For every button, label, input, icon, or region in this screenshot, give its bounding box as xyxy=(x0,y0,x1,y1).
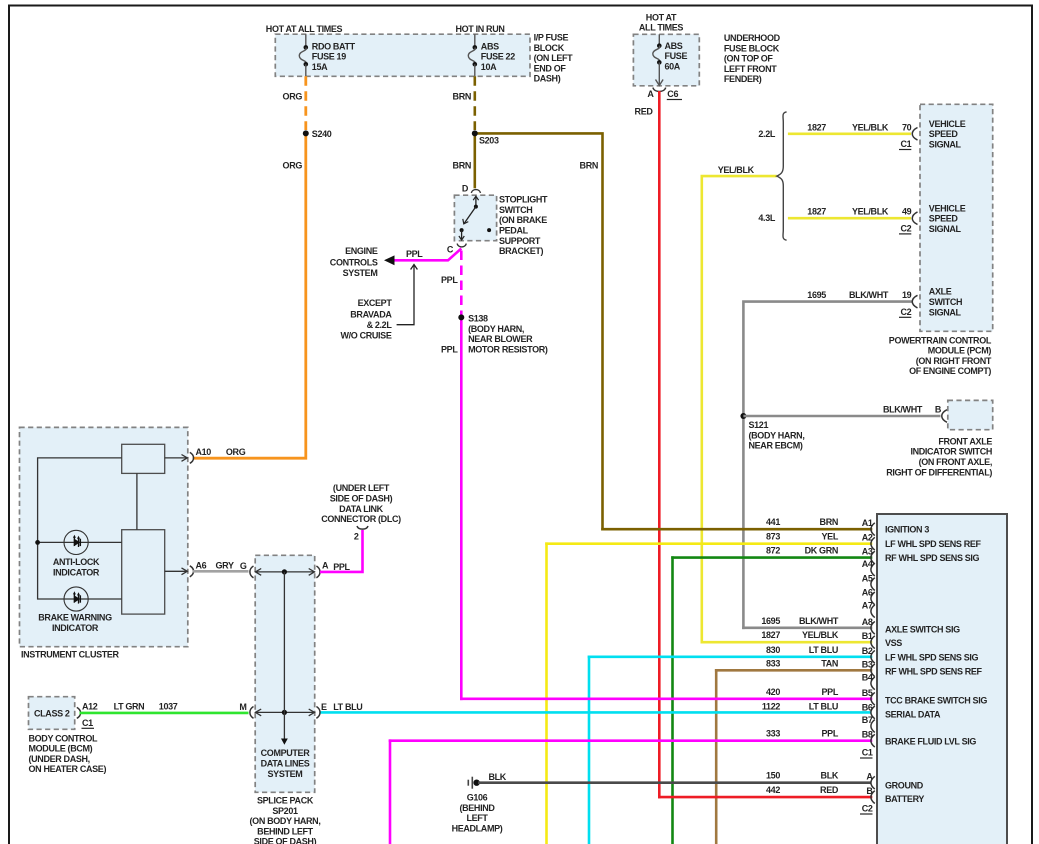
EBCM wire number labels xyxy=(761,517,780,795)
wire LT BLU horizontal to EBCM B2 xyxy=(589,655,871,658)
svg-text:MODULE (PCM): MODULE (PCM) xyxy=(928,346,992,356)
label POWERTRAIN CONTROL MODULE (PCM) (ON RIGHT FRONT OF ENGINE COMPT) xyxy=(889,335,992,376)
svg-text:CLASS 2: CLASS 2 xyxy=(34,708,70,718)
svg-text:VEHICLE: VEHICLE xyxy=(929,203,966,213)
svg-text:HOT AT: HOT AT xyxy=(646,12,677,22)
svg-text:70: 70 xyxy=(902,122,912,132)
wire BLK/WHT 1695 to PCM pin 19 and down to S121 / EBCM A8 xyxy=(743,302,911,628)
wire PPL horizontal to EBCM B5 xyxy=(461,697,871,700)
label VEHICLE SPEED SIGNAL (pin 49) xyxy=(929,203,966,234)
svg-text:PPL: PPL xyxy=(441,345,458,355)
svg-text:BLK: BLK xyxy=(821,771,839,781)
svg-text:I/P FUSE: I/P FUSE xyxy=(534,33,569,43)
svg-text:SIGNAL: SIGNAL xyxy=(929,224,962,234)
wire YEL/BLK horizontal to EBCM B1 xyxy=(702,641,871,644)
svg-text:YEL/BLK: YEL/BLK xyxy=(718,165,755,175)
svg-text:YEL/BLK: YEL/BLK xyxy=(852,207,889,217)
svg-text:BLK/WHT: BLK/WHT xyxy=(849,290,889,300)
label S138 (BODY HARN, NEAR BLOWER MOTOR RESISTOR) xyxy=(468,313,548,354)
svg-text:ANTI-LOCK: ANTI-LOCK xyxy=(53,557,100,567)
svg-text:SPEED: SPEED xyxy=(929,129,959,139)
splice connector arc G xyxy=(250,566,254,578)
svg-text:ORG: ORG xyxy=(226,447,246,457)
label EXCEPT BRAVADA & 2.2L W/O CRUISE xyxy=(340,298,392,341)
wire RED horizontal to EBCM B xyxy=(659,796,871,799)
svg-text:MOTOR RESISTOR): MOTOR RESISTOR) xyxy=(468,345,548,355)
svg-text:RED: RED xyxy=(635,107,654,117)
splice connector arc M xyxy=(250,707,254,719)
DLC connector 2 (cup) xyxy=(357,526,368,529)
label ENGINE CONTROLS SYSTEM xyxy=(330,246,378,278)
connector D (frown arc) xyxy=(471,190,480,193)
junction dot (cluster) xyxy=(35,540,40,545)
svg-text:M: M xyxy=(239,702,246,712)
svg-text:EXCEPT: EXCEPT xyxy=(358,298,393,308)
svg-text:441: 441 xyxy=(766,517,780,527)
svg-text:G106: G106 xyxy=(467,793,488,803)
splice connector arc A xyxy=(316,566,320,578)
connector arc front axle B xyxy=(942,410,947,423)
svg-text:442: 442 xyxy=(766,785,780,795)
svg-text:SIGNAL: SIGNAL xyxy=(929,307,962,317)
svg-text:RF WHL SPD SENS REF: RF WHL SPD SENS REF xyxy=(885,666,983,676)
wire BRN from S203 down to stoplight switch D xyxy=(473,133,476,188)
svg-text:LF WHL SPD SENS REF: LF WHL SPD SENS REF xyxy=(885,539,982,549)
splice pack inner G-A row xyxy=(255,569,315,576)
svg-text:B4: B4 xyxy=(862,672,873,682)
svg-text:SWITCH: SWITCH xyxy=(499,205,532,215)
wire LT BLU from bottom edge to EBCM B2 xyxy=(588,657,591,844)
svg-text:RDO BATT: RDO BATT xyxy=(312,41,356,51)
svg-text:FUSE BLOCK: FUSE BLOCK xyxy=(724,43,780,53)
svg-text:PPL: PPL xyxy=(822,687,839,697)
LED anti-lock indicator xyxy=(64,530,88,554)
svg-text:SYSTEM: SYSTEM xyxy=(268,769,303,779)
svg-text:(ON TOP OF: (ON TOP OF xyxy=(724,54,774,64)
EBCM pin arcs A1-A8 B1-B8 A B xyxy=(871,523,875,804)
svg-text:(ON BRAKE: (ON BRAKE xyxy=(499,215,547,225)
EBCM pin labels xyxy=(862,518,874,796)
BCM box xyxy=(29,697,75,730)
instrument cluster box xyxy=(20,427,188,646)
svg-text:SIDE OF DASH): SIDE OF DASH) xyxy=(254,837,317,844)
svg-text:1037: 1037 xyxy=(159,701,178,711)
svg-text:A: A xyxy=(322,560,329,570)
label G106 (BEHIND LEFT HEADLAMP) xyxy=(452,793,503,834)
label HOT AT ALL TIMES (underhood) xyxy=(639,12,684,32)
svg-text:C6: C6 xyxy=(667,89,678,99)
svg-text:A3: A3 xyxy=(862,547,873,557)
svg-text:HEADLAMP): HEADLAMP) xyxy=(452,823,503,833)
svg-text:RED: RED xyxy=(820,785,839,795)
svg-text:B: B xyxy=(935,405,942,415)
cluster A6 connector (arrow + arc) xyxy=(165,566,194,577)
svg-text:1827: 1827 xyxy=(807,207,826,217)
svg-text:RF WHL SPD SENS SIG: RF WHL SPD SENS SIG xyxy=(885,553,980,563)
wire PPL from C to engine controls (diagonal + horizontal) xyxy=(393,249,461,261)
svg-text:ORG: ORG xyxy=(283,161,303,171)
wire YEL/BLK vertical to EBCM B1 xyxy=(702,176,776,642)
svg-text:C2: C2 xyxy=(900,307,911,317)
PCM box xyxy=(920,104,993,331)
svg-text:UNDERHOOD: UNDERHOOD xyxy=(724,33,781,43)
svg-text:(ON RIGHT FRONT: (ON RIGHT FRONT xyxy=(916,356,992,366)
svg-text:BRN: BRN xyxy=(820,517,838,527)
svg-text:BRAKE WARNING: BRAKE WARNING xyxy=(38,613,112,623)
svg-text:A12: A12 xyxy=(82,701,98,711)
wire PPL from S138 down to EBCM B5 xyxy=(460,317,463,698)
svg-text:SIGNAL: SIGNAL xyxy=(929,140,962,150)
svg-text:BRAVADA: BRAVADA xyxy=(350,310,392,320)
svg-text:OF ENGINE COMPT): OF ENGINE COMPT) xyxy=(909,366,991,376)
splice connector arc E xyxy=(316,707,320,719)
svg-text:A6: A6 xyxy=(196,560,207,570)
svg-text:2: 2 xyxy=(354,532,359,542)
svg-text:150: 150 xyxy=(766,771,780,781)
svg-text:LEFT: LEFT xyxy=(466,813,488,823)
svg-text:CONTROLS: CONTROLS xyxy=(330,258,378,268)
wire RED vertical from C6 to EBCM B row xyxy=(658,92,661,797)
wire BRN branch S203 to EBCM A1 xyxy=(475,133,603,529)
svg-text:MODULE (BCM): MODULE (BCM) xyxy=(29,744,93,754)
junction S138 xyxy=(458,314,464,320)
svg-text:60A: 60A xyxy=(665,61,681,71)
label I/P FUSE BLOCK (ON LEFT END OF DASH) xyxy=(534,33,574,84)
svg-text:B2: B2 xyxy=(862,646,873,656)
label STOPLIGHT SWITCH (ON BRAKE PEDAL SUPPORT BRACKET) xyxy=(499,195,548,257)
svg-text:A10: A10 xyxy=(196,447,212,457)
wire TAN from bottom edge to EBCM B3 xyxy=(715,670,718,844)
svg-text:C2: C2 xyxy=(900,223,911,233)
svg-text:15A: 15A xyxy=(312,62,328,72)
svg-text:BLK/WHT: BLK/WHT xyxy=(799,616,839,626)
svg-text:INDICATOR: INDICATOR xyxy=(52,623,99,633)
connector arc PCM 49 xyxy=(912,212,917,225)
svg-text:PPL: PPL xyxy=(406,249,423,259)
svg-text:833: 833 xyxy=(766,658,780,668)
svg-text:1695: 1695 xyxy=(761,616,780,626)
svg-text:LEFT FRONT: LEFT FRONT xyxy=(724,64,777,74)
svg-text:HOT AT ALL TIMES: HOT AT ALL TIMES xyxy=(266,24,343,34)
svg-text:830: 830 xyxy=(766,645,780,655)
wire DK GRN horizontal to EBCM A3 xyxy=(673,556,872,559)
svg-text:B: B xyxy=(866,786,873,796)
pointer line except-bravada to PPL wire xyxy=(397,265,418,325)
svg-text:A2: A2 xyxy=(862,533,873,543)
wire PPL horizontal to EBCM B8 xyxy=(390,739,871,742)
BCM connector arc A12 xyxy=(77,707,81,718)
svg-text:FENDER): FENDER) xyxy=(724,74,762,84)
svg-text:B8: B8 xyxy=(862,730,873,740)
wire BLK/WHT S121 to front axle indicator switch xyxy=(743,415,940,418)
svg-text:SWITCH: SWITCH xyxy=(929,297,962,307)
svg-text:SP201: SP201 xyxy=(272,806,298,816)
svg-text:LT BLU: LT BLU xyxy=(809,645,838,655)
svg-text:VSS: VSS xyxy=(885,638,902,648)
svg-text:HOT IN RUN: HOT IN RUN xyxy=(456,24,505,34)
svg-text:PPL: PPL xyxy=(441,275,458,285)
svg-text:SERIAL DATA: SERIAL DATA xyxy=(885,709,941,719)
svg-text:PPL: PPL xyxy=(822,729,839,739)
svg-text:(ON FRONT AXLE,: (ON FRONT AXLE, xyxy=(919,457,992,467)
svg-text:YEL/BLK: YEL/BLK xyxy=(802,630,839,640)
wire YEL from bottom edge to EBCM A2 xyxy=(545,544,548,844)
svg-text:(UNDER LEFT: (UNDER LEFT xyxy=(333,483,390,493)
svg-text:STOPLIGHT: STOPLIGHT xyxy=(499,195,548,205)
junction S121 xyxy=(740,413,746,419)
svg-text:DK GRN: DK GRN xyxy=(805,546,838,556)
ground G106 xyxy=(468,777,480,789)
svg-text:(ON LEFT: (ON LEFT xyxy=(534,53,574,63)
svg-text:333: 333 xyxy=(766,729,780,739)
svg-text:PPL: PPL xyxy=(333,562,350,572)
svg-text:10A: 10A xyxy=(481,62,497,72)
cluster A10 connector (arrow + arc) xyxy=(165,452,194,463)
svg-text:END OF: END OF xyxy=(534,63,567,73)
svg-text:FUSE 19: FUSE 19 xyxy=(312,52,346,62)
splice pack inner M-E row xyxy=(255,709,315,716)
svg-text:1827: 1827 xyxy=(761,630,780,640)
svg-text:C2: C2 xyxy=(862,804,873,814)
svg-text:YEL: YEL xyxy=(822,532,839,542)
svg-text:(ON BODY HARN,: (ON BODY HARN, xyxy=(250,816,321,826)
svg-text:BODY CONTROL: BODY CONTROL xyxy=(29,733,98,743)
svg-text:1122: 1122 xyxy=(762,701,780,711)
connector C (cup arc) xyxy=(457,244,466,247)
svg-text:LT BLU: LT BLU xyxy=(809,701,838,711)
splice S203 xyxy=(472,130,478,136)
svg-text:BRAKE FLUID LVL SIG: BRAKE FLUID LVL SIG xyxy=(885,737,976,747)
svg-text:4.3L: 4.3L xyxy=(758,213,775,223)
cluster inner module large rect xyxy=(122,530,165,614)
svg-text:AXLE: AXLE xyxy=(929,287,952,297)
svg-text:COMPUTER: COMPUTER xyxy=(261,748,311,758)
svg-text:C1: C1 xyxy=(82,718,93,728)
svg-text:S121: S121 xyxy=(749,420,769,430)
wire ORG solid from S240 to instrument cluster A10 xyxy=(193,133,306,458)
svg-text:BRN: BRN xyxy=(453,91,471,101)
svg-text:C1: C1 xyxy=(900,139,911,149)
svg-text:DATA LINES: DATA LINES xyxy=(261,759,310,769)
svg-text:SPLICE PACK: SPLICE PACK xyxy=(257,796,314,806)
arrowhead engine controls xyxy=(384,255,395,265)
svg-text:BEHIND LEFT: BEHIND LEFT xyxy=(257,826,314,836)
svg-text:FUSE: FUSE xyxy=(665,51,688,61)
fuse F19 RDO BATT FUSE 19 15A xyxy=(299,34,355,76)
svg-text:B3: B3 xyxy=(862,659,873,669)
connector C6 (cup) xyxy=(653,88,666,92)
svg-text:A1: A1 xyxy=(862,518,873,528)
svg-text:LT GRN: LT GRN xyxy=(114,701,145,711)
svg-text:CONNECTOR (DLC): CONNECTOR (DLC) xyxy=(321,514,401,524)
label (UNDER LEFT SIDE OF DASH) DATA LINK CONNECTOR (DLC) xyxy=(321,483,401,524)
wire YEL horizontal to EBCM A2 xyxy=(547,542,872,545)
label UNDERHOOD FUSE BLOCK (ON TOP OF LEFT FRONT FENDER) xyxy=(724,33,781,84)
svg-text:S240: S240 xyxy=(312,129,332,139)
pin C2 label underlined xyxy=(899,223,912,234)
I/P fuse block (box) xyxy=(275,34,530,76)
stoplight switch internals xyxy=(459,196,491,240)
label FRONT AXLE INDICATOR SWITCH (ON FRONT AXLE, RIGHT OF DIFFERENTIAL) xyxy=(886,436,992,477)
wire LT GRN BCM to splice pack M xyxy=(80,712,249,715)
wire PPL dashed from C down to S138 xyxy=(460,251,463,318)
svg-text:(BODY HARN,: (BODY HARN, xyxy=(468,324,524,334)
svg-text:INDICATOR SWITCH: INDICATOR SWITCH xyxy=(910,447,992,457)
svg-text:S203: S203 xyxy=(479,135,499,145)
svg-text:B5: B5 xyxy=(862,688,873,698)
svg-text:19: 19 xyxy=(902,290,912,300)
svg-text:POWERTRAIN CONTROL: POWERTRAIN CONTROL xyxy=(889,335,992,345)
svg-text:GROUND: GROUND xyxy=(885,780,924,790)
front axle indicator switch box xyxy=(948,400,993,429)
brace 2.2L/4.3L split xyxy=(777,112,787,240)
fuse F22 ABS FUSE 22 10A xyxy=(468,34,515,76)
svg-text:1827: 1827 xyxy=(807,122,826,132)
svg-text:SIDE OF DASH): SIDE OF DASH) xyxy=(330,494,393,504)
svg-text:DATA LINK: DATA LINK xyxy=(339,504,384,514)
svg-text:IGNITION 3: IGNITION 3 xyxy=(885,525,929,535)
cluster inner wires xyxy=(38,458,137,599)
wire BRN horizontal to EBCM A1 xyxy=(603,528,872,531)
svg-text:PEDAL: PEDAL xyxy=(499,226,529,236)
svg-text:BATTERY: BATTERY xyxy=(885,794,924,804)
wire BLK G106 to EBCM A xyxy=(478,781,871,784)
pin C1 label underlined xyxy=(899,139,912,150)
wire ORG dashed from fuse 19 to S240 xyxy=(304,76,307,130)
svg-text:(UNDER DASH,: (UNDER DASH, xyxy=(29,754,90,764)
svg-text:BLOCK: BLOCK xyxy=(534,43,565,53)
svg-text:A6: A6 xyxy=(862,588,873,598)
wire LT BLU serial data from splice pack E to EBCM B6 xyxy=(320,711,871,714)
svg-text:TCC BRAKE SWITCH SIG: TCC BRAKE SWITCH SIG xyxy=(885,696,987,706)
svg-text:873: 873 xyxy=(766,532,780,542)
wire BLK/WHT horizontal to EBCM A8 xyxy=(743,626,871,629)
svg-text:GRY: GRY xyxy=(216,560,234,570)
wire GRY cluster A6 to splice pack G xyxy=(193,570,249,573)
svg-text:LF WHL SPD SENS SIG: LF WHL SPD SENS SIG xyxy=(885,652,979,662)
svg-text:ALL TIMES: ALL TIMES xyxy=(639,23,684,33)
svg-text:1695: 1695 xyxy=(807,290,826,300)
svg-text:TAN: TAN xyxy=(821,658,838,668)
splice S240 xyxy=(303,130,309,136)
EBCM signal name labels xyxy=(885,525,987,804)
svg-text:SPEED: SPEED xyxy=(929,214,959,224)
label SPLICE PACK SP201 (ON BODY HARN, BEHIND LEFT SIDE OF DASH) xyxy=(250,796,321,844)
label COMPUTER DATA LINES SYSTEM xyxy=(261,748,311,779)
svg-text:A5: A5 xyxy=(862,573,873,583)
stoplight switch box xyxy=(454,195,496,241)
svg-text:BRN: BRN xyxy=(453,161,471,171)
wire YEL/BLK 1827 to PCM pin 49 xyxy=(788,217,911,220)
svg-text:49: 49 xyxy=(902,207,912,217)
svg-text:INSTRUMENT CLUSTER: INSTRUMENT CLUSTER xyxy=(21,650,120,660)
svg-text:C: C xyxy=(447,245,454,255)
svg-text:2.2L: 2.2L xyxy=(758,129,775,139)
svg-text:A4: A4 xyxy=(862,559,873,569)
svg-text:BLK/WHT: BLK/WHT xyxy=(883,405,923,415)
svg-text:(BODY HARN,: (BODY HARN, xyxy=(749,430,805,440)
wire TAN horizontal to EBCM B3 xyxy=(716,669,871,672)
svg-text:ABS: ABS xyxy=(481,41,499,51)
svg-text:SYSTEM: SYSTEM xyxy=(343,268,378,278)
underhood fuse block (box) xyxy=(633,34,699,86)
EBCM wire color labels xyxy=(799,517,839,795)
label S121 (BODY HARN, NEAR EBCM) xyxy=(749,420,805,451)
svg-text:A: A xyxy=(647,89,654,99)
label ANTI-LOCK INDICATOR xyxy=(53,557,100,577)
wire YEL/BLK 1827 to PCM pin 70 xyxy=(788,133,911,136)
svg-text:RIGHT OF DIFFERENTIAL): RIGHT OF DIFFERENTIAL) xyxy=(886,467,992,477)
svg-text:C1: C1 xyxy=(862,748,873,758)
svg-text:872: 872 xyxy=(766,546,780,556)
svg-text:BRN: BRN xyxy=(580,161,598,171)
svg-text:W/O CRUISE: W/O CRUISE xyxy=(340,331,391,341)
svg-text:(BEHIND: (BEHIND xyxy=(459,803,495,813)
svg-text:ABS: ABS xyxy=(665,41,683,51)
svg-text:ON HEATER CASE): ON HEATER CASE) xyxy=(29,764,107,774)
label C1 underlined (bcm) xyxy=(82,718,95,729)
label C1 underlined (EBCM) xyxy=(860,748,873,759)
svg-text:ENGINE: ENGINE xyxy=(345,246,378,256)
label BRAKE WARNING INDICATOR xyxy=(38,613,112,633)
label BODY CONTROL MODULE (BCM) (UNDER DASH, ON HEATER CASE) xyxy=(29,733,107,774)
label C6 underlined xyxy=(667,89,682,100)
svg-text:E: E xyxy=(321,702,327,712)
label VEHICLE SPEED SIGNAL (pin 70) xyxy=(929,119,966,150)
svg-text:VEHICLE: VEHICLE xyxy=(929,119,966,129)
svg-text:B1: B1 xyxy=(862,631,873,641)
connector arc PCM 70 xyxy=(912,128,917,141)
svg-text:A8: A8 xyxy=(862,617,873,627)
svg-text:A7: A7 xyxy=(862,601,873,611)
svg-text:LT BLU: LT BLU xyxy=(333,702,362,712)
svg-text:D: D xyxy=(462,184,469,194)
svg-text:SUPPORT: SUPPORT xyxy=(499,236,541,246)
svg-text:NEAR BLOWER: NEAR BLOWER xyxy=(468,334,533,344)
svg-text:B6: B6 xyxy=(862,702,873,712)
svg-text:G: G xyxy=(240,561,247,571)
svg-text:S138: S138 xyxy=(468,313,488,323)
svg-text:BLK: BLK xyxy=(489,772,507,782)
label AXLE SWITCH SIGNAL (pin 19) xyxy=(929,287,962,318)
splice pack vertical bus with arrow xyxy=(281,572,288,745)
svg-text:420: 420 xyxy=(766,687,780,697)
EBCM module box xyxy=(877,514,1007,844)
svg-text:YEL/BLK: YEL/BLK xyxy=(852,122,889,132)
svg-text:AXLE SWITCH SIG: AXLE SWITCH SIG xyxy=(885,624,960,634)
svg-text:NEAR EBCM): NEAR EBCM) xyxy=(749,441,803,451)
svg-text:DASH): DASH) xyxy=(534,74,561,84)
svg-text:BRACKET): BRACKET) xyxy=(499,246,544,256)
fuse ABS FUSE 60A xyxy=(653,34,688,85)
wire BRN dashed from fuse 22 to S203 xyxy=(473,76,476,130)
pin C2 label underlined (pin19) xyxy=(899,307,912,318)
wire PPL from bottom edge to EBCM B8 xyxy=(389,741,392,844)
label C2 underlined (EBCM) xyxy=(860,804,873,815)
wire PPL splice A to DLC pin 2 xyxy=(320,530,363,572)
LED brake warning indicator xyxy=(64,587,88,611)
wire DK GRN from bottom edge to EBCM A3 xyxy=(671,558,674,844)
svg-text:FUSE 22: FUSE 22 xyxy=(481,52,515,62)
cluster inner module small rect xyxy=(122,444,165,473)
svg-text:& 2.2L: & 2.2L xyxy=(367,320,393,330)
connector arc PCM 19 xyxy=(912,295,917,308)
svg-text:FRONT AXLE: FRONT AXLE xyxy=(938,436,992,446)
svg-text:INDICATOR: INDICATOR xyxy=(53,567,100,577)
svg-text:ORG: ORG xyxy=(283,91,303,101)
splice pack SP201 box xyxy=(255,555,315,792)
svg-text:A: A xyxy=(866,772,873,782)
